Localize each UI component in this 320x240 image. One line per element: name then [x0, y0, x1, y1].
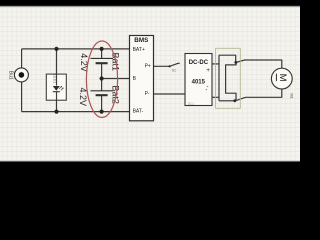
svg-text:Bu1: Bu1 [7, 71, 13, 80]
svg-text:M: M [277, 74, 288, 82]
svg-text:S1: S1 [172, 68, 176, 72]
svg-text:+: + [206, 67, 210, 74]
svg-text:M1: M1 [290, 93, 295, 99]
svg-text:4.2V: 4.2V [78, 88, 88, 107]
svg-text:Bat2: Bat2 [111, 85, 121, 104]
svg-text:LED1: LED1 [52, 74, 56, 83]
svg-text:BAT-: BAT- [133, 108, 144, 114]
svg-text:4015: 4015 [192, 79, 206, 85]
svg-text:P+: P+ [145, 64, 151, 70]
svg-text:DC-DC: DC-DC [189, 60, 209, 66]
svg-text:DC1: DC1 [188, 102, 195, 106]
svg-text:BMS: BMS [134, 37, 148, 44]
svg-text:P-: P- [145, 91, 150, 97]
svg-text:BAT+: BAT+ [133, 47, 145, 53]
